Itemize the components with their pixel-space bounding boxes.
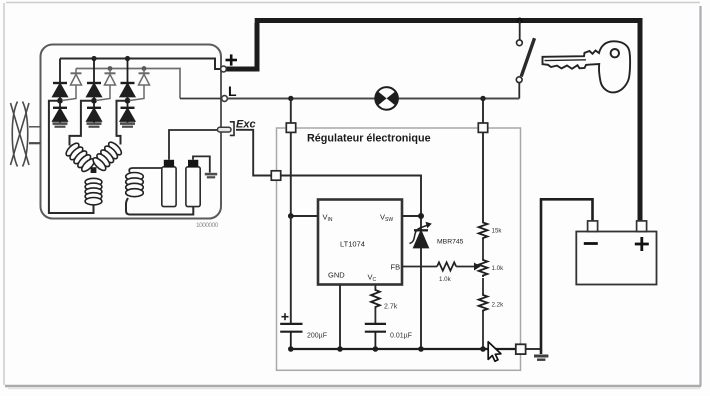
svg-text:LT1074: LT1074 [340,240,365,249]
label battery minus [584,242,598,245]
battery terminal plus post [637,221,647,232]
node rail C2 [373,346,379,352]
resistor R4 2.7k [371,289,380,309]
trio diode D7 [62,69,82,101]
svg-text:L: L [228,83,237,99]
wire brush right to internal ground [193,156,210,172]
wire battery minus to ground [541,199,593,354]
resistor R1 15k [479,221,488,240]
op-amp U1 LT1074 [318,200,402,285]
wire switch lower stub [518,83,520,99]
wire phase2 to left winding [70,101,93,146]
diode D2 lower (leg1) [53,103,67,122]
frame border right [699,6,701,386]
wire 2.2k to ground rail [482,312,484,350]
node phase3 junction [125,98,131,104]
wire field coil bottom to right slip ring [126,198,193,215]
frame border bottom [5,386,701,389]
junction on bus2 at trio diode 3 [142,66,147,71]
diode D4 lower (leg2) [87,103,101,122]
wire resistor to wiper arrow [456,266,474,268]
capacitor C2 0.01uF [365,324,386,349]
node rail MBR745 [418,346,424,352]
brush right [188,160,198,168]
ground rail [291,348,516,350]
junction on bus1 at leg3 [125,56,130,61]
wire pot to 2.2k [482,278,484,294]
wire Vc pin stub [374,285,376,289]
wire GND pin to rail [339,285,341,350]
diode D6 lower (leg3) [121,103,135,122]
pad ground exit [516,344,526,354]
wire B+ to top rail corner [226,23,257,69]
wire phase1 to bottom winding [49,101,94,213]
lamp charge indicator [375,87,398,110]
node phase1 junction [57,98,63,104]
node L-Vin tap [288,96,293,101]
regulator box [277,128,521,370]
bus1 positive rectifier bus [60,59,221,70]
node phase2 junction [91,98,97,104]
node Vsw junction [418,213,424,219]
switch S1 upper contact [517,40,523,46]
pulley [11,102,41,167]
wire Vin down to cap C1 [290,216,292,323]
wire L tap down to Vin [290,99,292,217]
brush left [164,160,174,168]
ground symbol internal [205,173,217,179]
mouse cursor [488,342,501,362]
wire lamp tap down to divider [482,99,484,222]
svg-text:15k: 15k [492,228,503,235]
node star point [91,167,97,173]
potentiometer R2 1.0k [479,259,488,278]
capacitor C1 200uF polarized [280,324,302,349]
svg-text:2.7k: 2.7k [384,304,398,311]
ignition key [543,41,631,92]
stator winding left [64,141,96,173]
stator winding right [91,140,123,172]
node rail GND [337,346,343,352]
svg-text:Régulateur électronique: Régulateur électronique [307,133,431,145]
wire switch upper stub [519,21,521,40]
svg-text:FB: FB [391,263,401,272]
switch S1 lower contact [516,77,522,83]
node rail divider [480,346,486,352]
svg-text:GND: GND [328,271,345,280]
switch S1 blade [521,38,534,76]
ground symbol leg3 [120,122,135,127]
battery BAT1 [576,232,656,285]
wire Vsw pin [402,215,421,217]
ground symbol leg1 [53,122,68,127]
diode MBR745 [414,216,428,349]
wire pad to chassis ground [526,348,541,350]
wire Vin pin [291,215,318,217]
svg-text:1.0k: 1.0k [492,265,505,272]
wire 15k to pot [482,240,484,259]
trio diode D9 [130,69,150,101]
bus2 exciter diode bus [76,69,180,99]
terminal L [222,96,228,102]
diode D1 upper (leg1) [53,59,67,99]
frame border top [6,2,700,4]
alternator box [41,45,222,219]
wire phase3 to right winding [117,101,126,145]
battery terminal minus post [588,221,598,232]
potentiometer wiper arrow [474,263,481,271]
rotor field coil [126,173,144,197]
resistor R3 2.2k [479,294,488,313]
svg-text:Exc: Exc [236,119,256,131]
wire field coil top to slip ring [129,168,162,173]
node Vin junction [288,213,294,219]
svg-text:1.0k: 1.0k [439,276,452,283]
ground symbol leg2 [87,122,102,127]
stator winding bottom [85,178,102,205]
diode D3 upper (leg2) [87,59,101,99]
node rail C1 [288,346,294,352]
frame border left [3,3,5,385]
svg-text:1000000: 1000000 [196,222,219,229]
svg-text:MBR745: MBR745 [437,239,464,246]
wire top rail to battery + [255,21,640,222]
svg-text:0.01µF: 0.01µF [390,333,412,340]
label + [226,54,238,65]
terminal B+ [221,66,227,72]
Exc bracket [230,122,234,136]
trio diode D8 [96,69,116,101]
node lamp-right tap [480,96,485,101]
terminal Exc tab [218,127,232,132]
pad Vin entry [286,123,295,132]
MBR745 polarity swoosh [410,225,428,243]
pad divider entry [478,123,487,132]
wire brush left to Exc tab [169,130,218,160]
junction on bus1 at leg2 [91,56,96,61]
node switch tap on top rail [517,18,523,24]
label C1 plus [282,313,289,320]
wire FB pin to resistor [402,266,437,268]
wire L node to switch [227,98,519,100]
slip ring left [162,167,176,207]
svg-text:200µF: 200µF [307,333,327,340]
ground symbol chassis [534,355,548,361]
wire Exc terminal to Vsw [236,130,421,216]
wire 2.7k to cap [374,309,376,324]
svg-text:2.2k: 2.2k [492,302,505,309]
junction on bus2 at trio diode 2 [108,66,113,71]
resistor R-FB 1.0k horizontal [437,262,456,270]
slip ring right [186,167,200,207]
label battery plus [635,237,649,251]
diode D5 upper (leg3) [121,59,135,99]
pad Exc entry [271,171,280,180]
wire L terminal to bus2 [180,98,222,100]
